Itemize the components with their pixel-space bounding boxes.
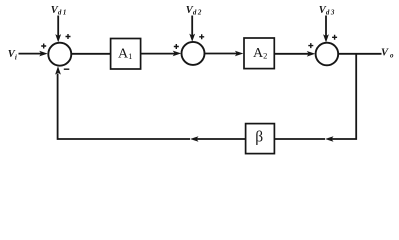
block A2 <box>244 38 274 69</box>
wire Vd1 source into S1 top <box>57 16 59 37</box>
summing junction S3 <box>316 43 339 66</box>
minus sign at S1 bottom (feedback) <box>64 68 70 70</box>
plus sign at S3 input <box>308 43 313 48</box>
arrowhead into S1 (from Vi) <box>39 51 48 57</box>
wire S2 to A2 <box>205 53 238 55</box>
wire Vd3 source into S3 top <box>325 16 327 37</box>
wire S1 to A1 <box>71 53 110 55</box>
wire Vd2 source into S2 top <box>191 16 193 36</box>
arrowhead into S2 top (from Vd2) <box>189 34 195 42</box>
arrowhead into S3 top (from Vd3) <box>323 34 329 42</box>
wire beta box to left arrowhead <box>197 138 246 140</box>
plus sign at S3 top (Vd3) <box>332 35 337 40</box>
wire A2 to summing junction S3 <box>274 53 308 55</box>
plus sign at S2 top (Vd2) <box>199 34 204 39</box>
arrowhead feedback into beta (pointing left) <box>325 136 334 142</box>
block beta (feedback) <box>246 124 275 154</box>
plus sign at S1 top (Vd1) <box>66 34 71 39</box>
arrowhead into S3 (from A2) <box>307 51 316 57</box>
arrowhead up into S1 bottom (feedback) <box>55 66 61 74</box>
summing junction S2 <box>182 42 205 65</box>
plus sign at S2 input <box>174 44 179 49</box>
block A1 <box>111 39 141 70</box>
svg-text:β: β <box>255 129 263 146</box>
arrowhead into A2 (from S2) <box>235 51 244 57</box>
wire feedback left run and up to S1 bottom <box>58 74 190 140</box>
arrowhead into S2 (from A1) <box>173 51 182 57</box>
wire S3 to output Vo <box>338 53 381 55</box>
wire A1 to summing junction S2 <box>141 53 175 55</box>
wire feedback tap: vertical drop from output node <box>332 54 357 139</box>
summing junction S1 <box>48 43 71 66</box>
arrowhead feedback after beta (pointing left) <box>190 136 199 142</box>
plus sign at S1 input <box>41 44 46 49</box>
arrowhead into S1 top (from Vd1) <box>55 34 61 42</box>
wire input Vi to summing junction S1 <box>19 53 42 55</box>
wire feedback into beta box <box>275 138 325 140</box>
